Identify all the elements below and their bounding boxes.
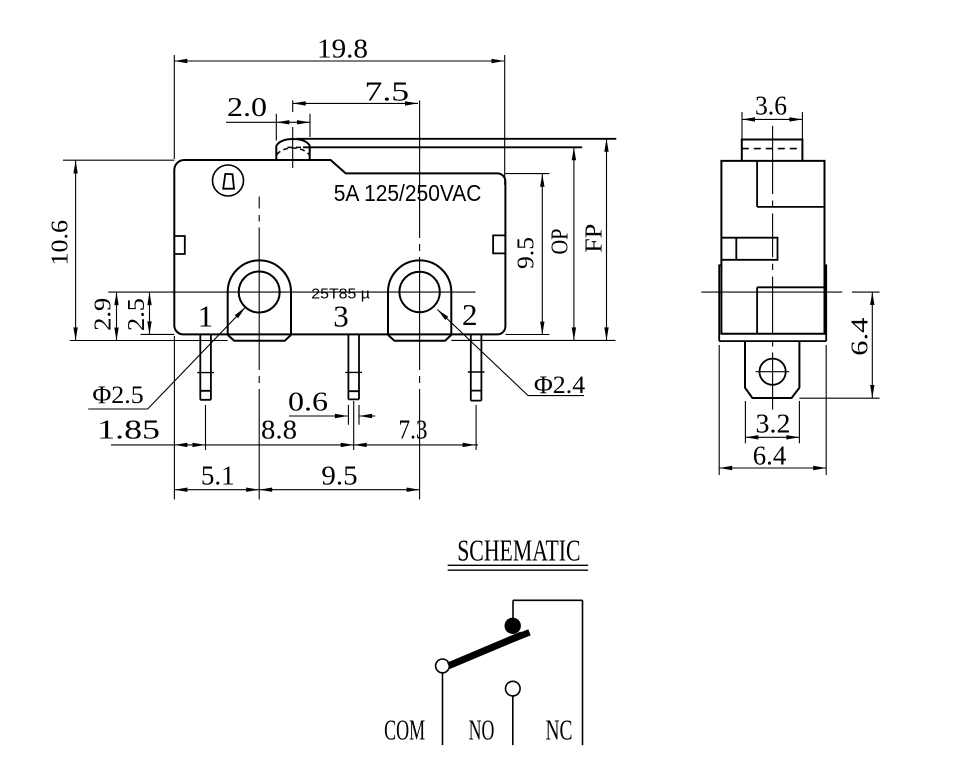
dim 6.4 bottom extensions: [719, 345, 826, 475]
svg-text:3.6: 3.6: [755, 91, 787, 121]
svg-text:NO: NO: [469, 716, 495, 747]
10.6 arrows: [73, 161, 77, 341]
side hole crosshair: [756, 371, 790, 373]
svg-text:9.5: 9.5: [513, 237, 539, 269]
terminal bottom extension: [799, 397, 879, 399]
dia2.4 leader arrow: [437, 310, 448, 321]
side top internal step: [757, 161, 824, 207]
2.5 arrows: [147, 292, 151, 334]
terminal pin 3: [345, 334, 362, 399]
hole 1 vertical centerline: [258, 197, 260, 500]
arrowheads front: [73, 59, 608, 492]
3.6 arrows: [742, 117, 802, 121]
terminal pin 2: [468, 334, 485, 400]
side left notch: [721, 238, 777, 260]
0.6 arrows: [335, 414, 372, 418]
svg-text:FP: FP: [581, 224, 607, 253]
side button: [742, 140, 803, 161]
plunger button outline: [276, 139, 309, 160]
NO contact circle: [506, 681, 521, 696]
terminal pin 1: [197, 334, 214, 399]
side button centerline: [772, 126, 774, 410]
svg-text:2: 2: [462, 297, 478, 332]
switch body outline: [174, 160, 505, 334]
row1 arrows: [174, 443, 475, 447]
dim 3.6 line: [742, 118, 802, 120]
button vertical centerline: [292, 100, 294, 168]
svg-text:6.4: 6.4: [753, 440, 787, 470]
svg-text:1: 1: [198, 299, 214, 334]
svg-text:OP: OP: [547, 229, 573, 255]
mounting hole 1 boss: [228, 260, 291, 335]
side flange right: [825, 265, 827, 341]
svg-text:3.2: 3.2: [756, 408, 791, 438]
dim 19.8 extension left: [173, 55, 175, 159]
dim 19.8 extension right: [504, 55, 506, 185]
side horizontal centerline: [701, 291, 879, 293]
svg-text:NC: NC: [546, 716, 573, 747]
svg-text:5.1: 5.1: [201, 461, 235, 491]
COM contact circle: [436, 659, 450, 673]
plunger pressed position (dashed arc): [277, 148, 310, 155]
lever arm tip: [504, 632, 530, 642]
2.9 arrows: [114, 292, 118, 340]
side flange left: [719, 265, 721, 341]
row2 arrows: [174, 488, 419, 492]
dim OP line: [573, 147, 575, 340]
dim 3.2 line: [745, 436, 799, 438]
hole 2 vertical centerline: [419, 100, 421, 499]
title double underline: [448, 565, 588, 570]
svg-text:COM: COM: [384, 716, 425, 747]
svg-text:2.9: 2.9: [91, 298, 117, 331]
dia2.5 leader arrow: [235, 307, 246, 318]
FP arrows: [604, 139, 608, 341]
dim row 1.85/8.8/7.3 line: [111, 444, 478, 446]
pin 1 centerline extension: [205, 405, 207, 450]
svg-text:9.5: 9.5: [321, 461, 357, 491]
dim 0.6 lines: [289, 415, 375, 417]
OP arrows: [572, 147, 576, 340]
svg-text:5A 125/250VAC: 5A 125/250VAC: [334, 180, 482, 206]
6.4B arrows: [719, 466, 826, 470]
3.2 arrows: [745, 435, 799, 439]
lever arm: [449, 635, 523, 666]
dim 2.9 line: [116, 292, 118, 340]
svg-text:SCHEMATIC: SCHEMATIC: [457, 533, 580, 568]
mold mark trapezoid: [223, 174, 234, 189]
9.5R arrows: [540, 174, 544, 335]
svg-text:8.8: 8.8: [261, 414, 297, 444]
side terminal: [745, 341, 799, 398]
dim 2.5 line: [149, 292, 151, 334]
dim 19.8 line: [174, 60, 504, 62]
mounting hole 2 (dia 2.4): [399, 272, 439, 312]
svg-text:2.0: 2.0: [227, 92, 267, 122]
left body edge extension down: [173, 336, 175, 500]
dim 2.0 line: [226, 121, 310, 123]
19.8 arrows: [174, 59, 504, 63]
wire NO vertical: [512, 696, 514, 746]
svg-text:Φ2.5: Φ2.5: [92, 382, 143, 409]
boss bottom extension left: [70, 340, 228, 342]
dim 9.5 right line: [541, 174, 543, 335]
dim 6.4 right line: [871, 292, 873, 398]
dim 3.2 extensions: [745, 401, 799, 443]
svg-text:2.5: 2.5: [124, 298, 150, 331]
pin 2 centerline extension: [475, 405, 477, 450]
side body rectangle: [721, 161, 824, 334]
body top extension left: [63, 159, 174, 161]
2.0 arrows: [276, 120, 310, 124]
side flange bottom: [719, 340, 826, 342]
svg-text:3: 3: [333, 299, 349, 334]
pin 3 centerline extension: [353, 401, 355, 450]
wire NC vertical: [582, 600, 584, 745]
6.4R arrows: [870, 292, 874, 398]
side button pressed line (dashed): [742, 148, 803, 150]
wire pivot stub: [512, 600, 514, 619]
body top right extension: [505, 173, 549, 175]
leader dia 2.4: [437, 310, 584, 396]
body bottom extension short: [141, 333, 175, 335]
side terminal hole: [760, 359, 786, 385]
dim 10.6 line: [75, 161, 77, 341]
svg-text:6.4: 6.4: [848, 318, 874, 356]
horizontal centerline through holes: [108, 291, 475, 293]
svg-text:7.3: 7.3: [399, 414, 428, 444]
boss bottom extension right: [451, 339, 615, 341]
svg-text:1.85: 1.85: [97, 414, 160, 444]
wire top: [513, 599, 583, 601]
dim FP line: [606, 139, 608, 341]
7.5 arrows: [293, 101, 418, 105]
lever free-position line FP: [296, 138, 616, 140]
right side notch: [493, 235, 505, 253]
dim 2.0 extensions: [276, 114, 310, 141]
pin 3 edge extensions for 0.6 dim: [348, 405, 359, 425]
mounting hole 1 (dia 2.5): [239, 272, 280, 313]
mounting hole 2 boss: [388, 260, 451, 335]
svg-text:10.6: 10.6: [48, 220, 74, 265]
lever operating-position line OP: [303, 146, 582, 148]
dim 7.5 line: [293, 102, 418, 104]
dim 6.4 bottom line: [719, 467, 826, 469]
wire COM vertical: [442, 673, 444, 745]
dim 3.6 extensions: [742, 112, 802, 139]
dim row 5.1/9.5 line: [174, 489, 419, 491]
body bottom extension right: [505, 334, 549, 336]
svg-text:0.6: 0.6: [288, 387, 328, 417]
mold mark circle: [213, 165, 244, 196]
pivot dot: [505, 618, 521, 634]
svg-text:7.5: 7.5: [365, 76, 410, 106]
leader dia 2.5: [88, 307, 245, 409]
arrowheads side: [719, 117, 874, 470]
hidden segment of OP line: [288, 146, 304, 148]
side bottom internal step: [757, 287, 824, 334]
svg-text:19.8: 19.8: [317, 34, 368, 64]
left side notch: [174, 236, 185, 254]
svg-text:Φ2.4: Φ2.4: [534, 372, 586, 399]
